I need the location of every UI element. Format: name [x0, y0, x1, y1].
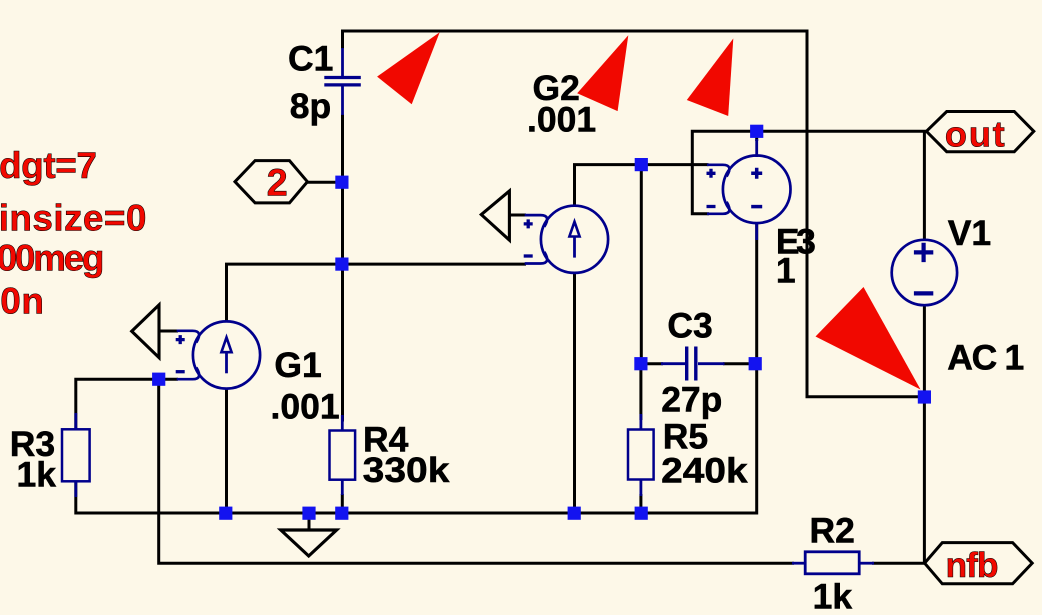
svg-text:AC 1: AC 1 — [947, 338, 1024, 378]
svg-text:G1: G1 — [274, 345, 321, 385]
wire feedback from G1 minus junction down and right to R2 — [159, 379, 794, 563]
spice directive text line 4 — [0, 281, 44, 322]
ground — [281, 530, 337, 556]
wire G1 plus arrow stub — [159, 330, 178, 333]
junction C3 left — [634, 357, 647, 370]
wire G2 plus arrow stub — [509, 214, 526, 217]
wire C3 right lead to vertical — [723, 362, 757, 365]
svg-text:1k: 1k — [17, 455, 57, 495]
vccs G1 — [176, 321, 340, 426]
wire G2 bottom to rail — [573, 273, 576, 514]
wire R2 right to nfb corner — [872, 562, 925, 565]
svg-text:10n: 10n — [0, 281, 44, 322]
svg-text:.001: .001 — [271, 387, 340, 427]
input arrow at G1 — [132, 305, 159, 358]
red annotation arrow 3 — [687, 39, 734, 117]
wire E3 bottom down, bottom ground rail, to R3 bottom — [76, 223, 757, 513]
junction R5 bottom rail — [635, 507, 648, 520]
svg-text:330k: 330k — [363, 450, 450, 490]
wire G1 bottom to rail — [225, 388, 228, 513]
svg-text:1: 1 — [776, 250, 796, 290]
input arrow at G2 — [481, 191, 509, 240]
svg-text:nfb: nfb — [946, 545, 999, 585]
junction G2 top wire — [635, 158, 648, 171]
resistor R4 — [330, 415, 450, 495]
vcvs E3 — [707, 139, 816, 290]
vccs G2 — [524, 68, 608, 273]
svg-text:winsize=0: winsize=0 — [0, 198, 147, 239]
junction ground rail — [302, 507, 315, 520]
svg-text:R2: R2 — [810, 510, 855, 550]
svg-text:27p: 27p — [661, 379, 722, 419]
capacitor C3 — [661, 305, 725, 419]
spice directive text line 1 — [0, 145, 97, 186]
svg-text:8p: 8p — [290, 86, 331, 126]
svg-text:C3: C3 — [667, 305, 712, 345]
svg-text:C1: C1 — [288, 39, 333, 79]
wire junction down from G2-top-wire to C3 left junction — [640, 165, 643, 364]
wire E3 feedback box: minus input up and over to E3 output top — [692, 131, 926, 214]
junction V1 bottom — [918, 390, 931, 403]
svg-text:240k: 240k — [661, 450, 748, 490]
wire V1 top from out corner — [923, 131, 926, 241]
svg-text:100meg: 100meg — [0, 237, 105, 278]
svg-text:2: 2 — [267, 163, 288, 205]
net flag nfb — [925, 543, 1033, 585]
junction G1 minus feedback — [152, 373, 165, 386]
resistor R5 — [628, 414, 748, 496]
wire R5 bottom to rail — [639, 494, 642, 513]
svg-text:V1: V1 — [948, 213, 991, 253]
junction R4 bottom rail — [335, 507, 348, 520]
red annotation arrow 2 — [577, 35, 628, 111]
wire R5 top from C3 left junction — [639, 364, 642, 420]
wire G2 top to junction and to E3 plus input — [575, 165, 709, 207]
spice directive text line 2 — [0, 198, 147, 239]
wire C3 left lead to junction — [641, 362, 663, 365]
wire C1 bottom down through node 2 to R4 top — [341, 115, 344, 422]
capacitor C1 — [288, 39, 361, 126]
red annotation arrow 4 — [816, 287, 921, 390]
wire from node2 junction left and down to G1 top — [227, 264, 344, 322]
wire V1 bottom down through junction to nfb — [923, 304, 926, 563]
junction G2 bottom rail — [568, 507, 581, 520]
resistor R2 — [792, 510, 874, 615]
wire from node2 junction right to G2 minus input — [342, 263, 526, 266]
net flag 2 — [235, 161, 307, 205]
red annotation arrow 1 — [377, 32, 440, 104]
svg-text:out: out — [945, 113, 1005, 154]
junction C3 right — [749, 357, 762, 370]
wire R3 top up and right to G1 minus input — [76, 379, 178, 429]
wire top rail from C1 top to right side down to V1 bottom junction — [343, 31, 925, 397]
wire flag 2 stub — [306, 181, 343, 184]
voltage source V1 — [892, 213, 1025, 378]
resistor R3 — [10, 413, 90, 497]
spice directive text line 3 — [0, 237, 105, 278]
junction E3 output top — [750, 125, 763, 138]
net flag out — [926, 112, 1033, 155]
junction node 2-C1 — [335, 176, 348, 189]
wire R4 bottom to rail — [341, 494, 344, 513]
wire ground stub — [308, 513, 311, 531]
junction G1 bottom rail — [219, 507, 232, 520]
svg-text:.001: .001 — [527, 99, 596, 139]
wire E3 top pin to junction — [755, 131, 758, 141]
svg-text:1k: 1k — [813, 577, 853, 615]
junction node 2 lower — [335, 258, 348, 271]
svg-text:dgt=7: dgt=7 — [0, 145, 97, 186]
